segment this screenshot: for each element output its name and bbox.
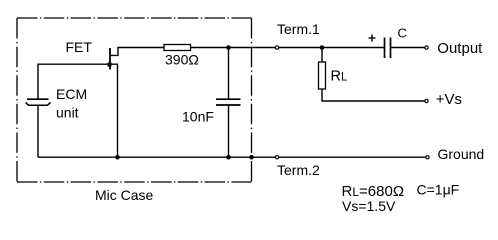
transistor FET: source lead [110,64,118,157]
svg-text:ECM: ECM [56,86,87,102]
terminal Term.1 open circle [275,46,278,49]
capacitor C right plate [390,38,392,59]
mic case dashed enclosure [17,18,252,182]
terminal Term.2 open circle [275,156,278,159]
junction: case edge crossing on ground rail [249,155,254,160]
svg-text:RL: RL [331,69,348,85]
svg-text:Output: Output [437,40,483,57]
terminal +Vs open circle [425,99,428,102]
wire: RL upper lead [321,48,323,63]
svg-text:Term.1: Term.1 [277,21,320,37]
wire: gate wire (ECM loop top edge) [38,63,110,65]
wire: top rail from resistor to capacitor C [191,47,385,49]
wire: RL lower lead to +Vs terminal [322,89,425,101]
wire: 10nF lower lead [228,105,230,157]
junction: RL tap on top rail [320,45,325,50]
capacitor 10nF top plate [216,98,241,100]
transistor FET: drain lead [110,48,118,56]
label: plus polarity of C [369,35,376,42]
svg-text:Vs=1.5V: Vs=1.5V [342,198,396,214]
resistor 390ohm body [164,45,191,51]
svg-text:unit: unit [56,105,79,121]
terminal Ground open circle [426,156,429,159]
wire: ground rail (bottom) [38,156,426,158]
capacitor 10nF bottom plate [216,104,241,106]
capacitor: electret capsule, top plate [27,98,49,100]
resistor RL body [319,62,326,89]
svg-text:C: C [398,26,407,41]
capacitor: electret capsule, lower lead [37,105,39,157]
wire: drain to resistor R 390 [117,47,164,49]
junction: 10nF tap on top rail [226,45,231,50]
capacitor: electret capsule, curved bottom plate [26,102,51,105]
capacitor C left plate [384,38,386,59]
svg-text:10nF: 10nF [182,108,214,124]
wire: 10nF upper lead [228,48,230,100]
svg-text:Ground: Ground [438,146,485,162]
svg-text:Term.2: Term.2 [277,162,320,178]
svg-text:FET: FET [66,39,93,55]
junction: 10nF to ground rail [226,155,231,160]
svg-text:Mic Case: Mic Case [95,187,154,203]
terminal Output open circle [425,46,428,49]
transistor FET: channel bar [109,48,111,70]
capacitor: electret capsule, upper lead [37,64,39,100]
junction: FET source to ground rail [115,155,120,160]
junction: gate to channel bar [108,63,112,67]
svg-text:390Ω: 390Ω [165,52,199,68]
svg-text:+Vs: +Vs [436,91,462,108]
wire: C to Output terminal [391,47,425,49]
svg-text:C=1μF: C=1μF [417,182,460,198]
